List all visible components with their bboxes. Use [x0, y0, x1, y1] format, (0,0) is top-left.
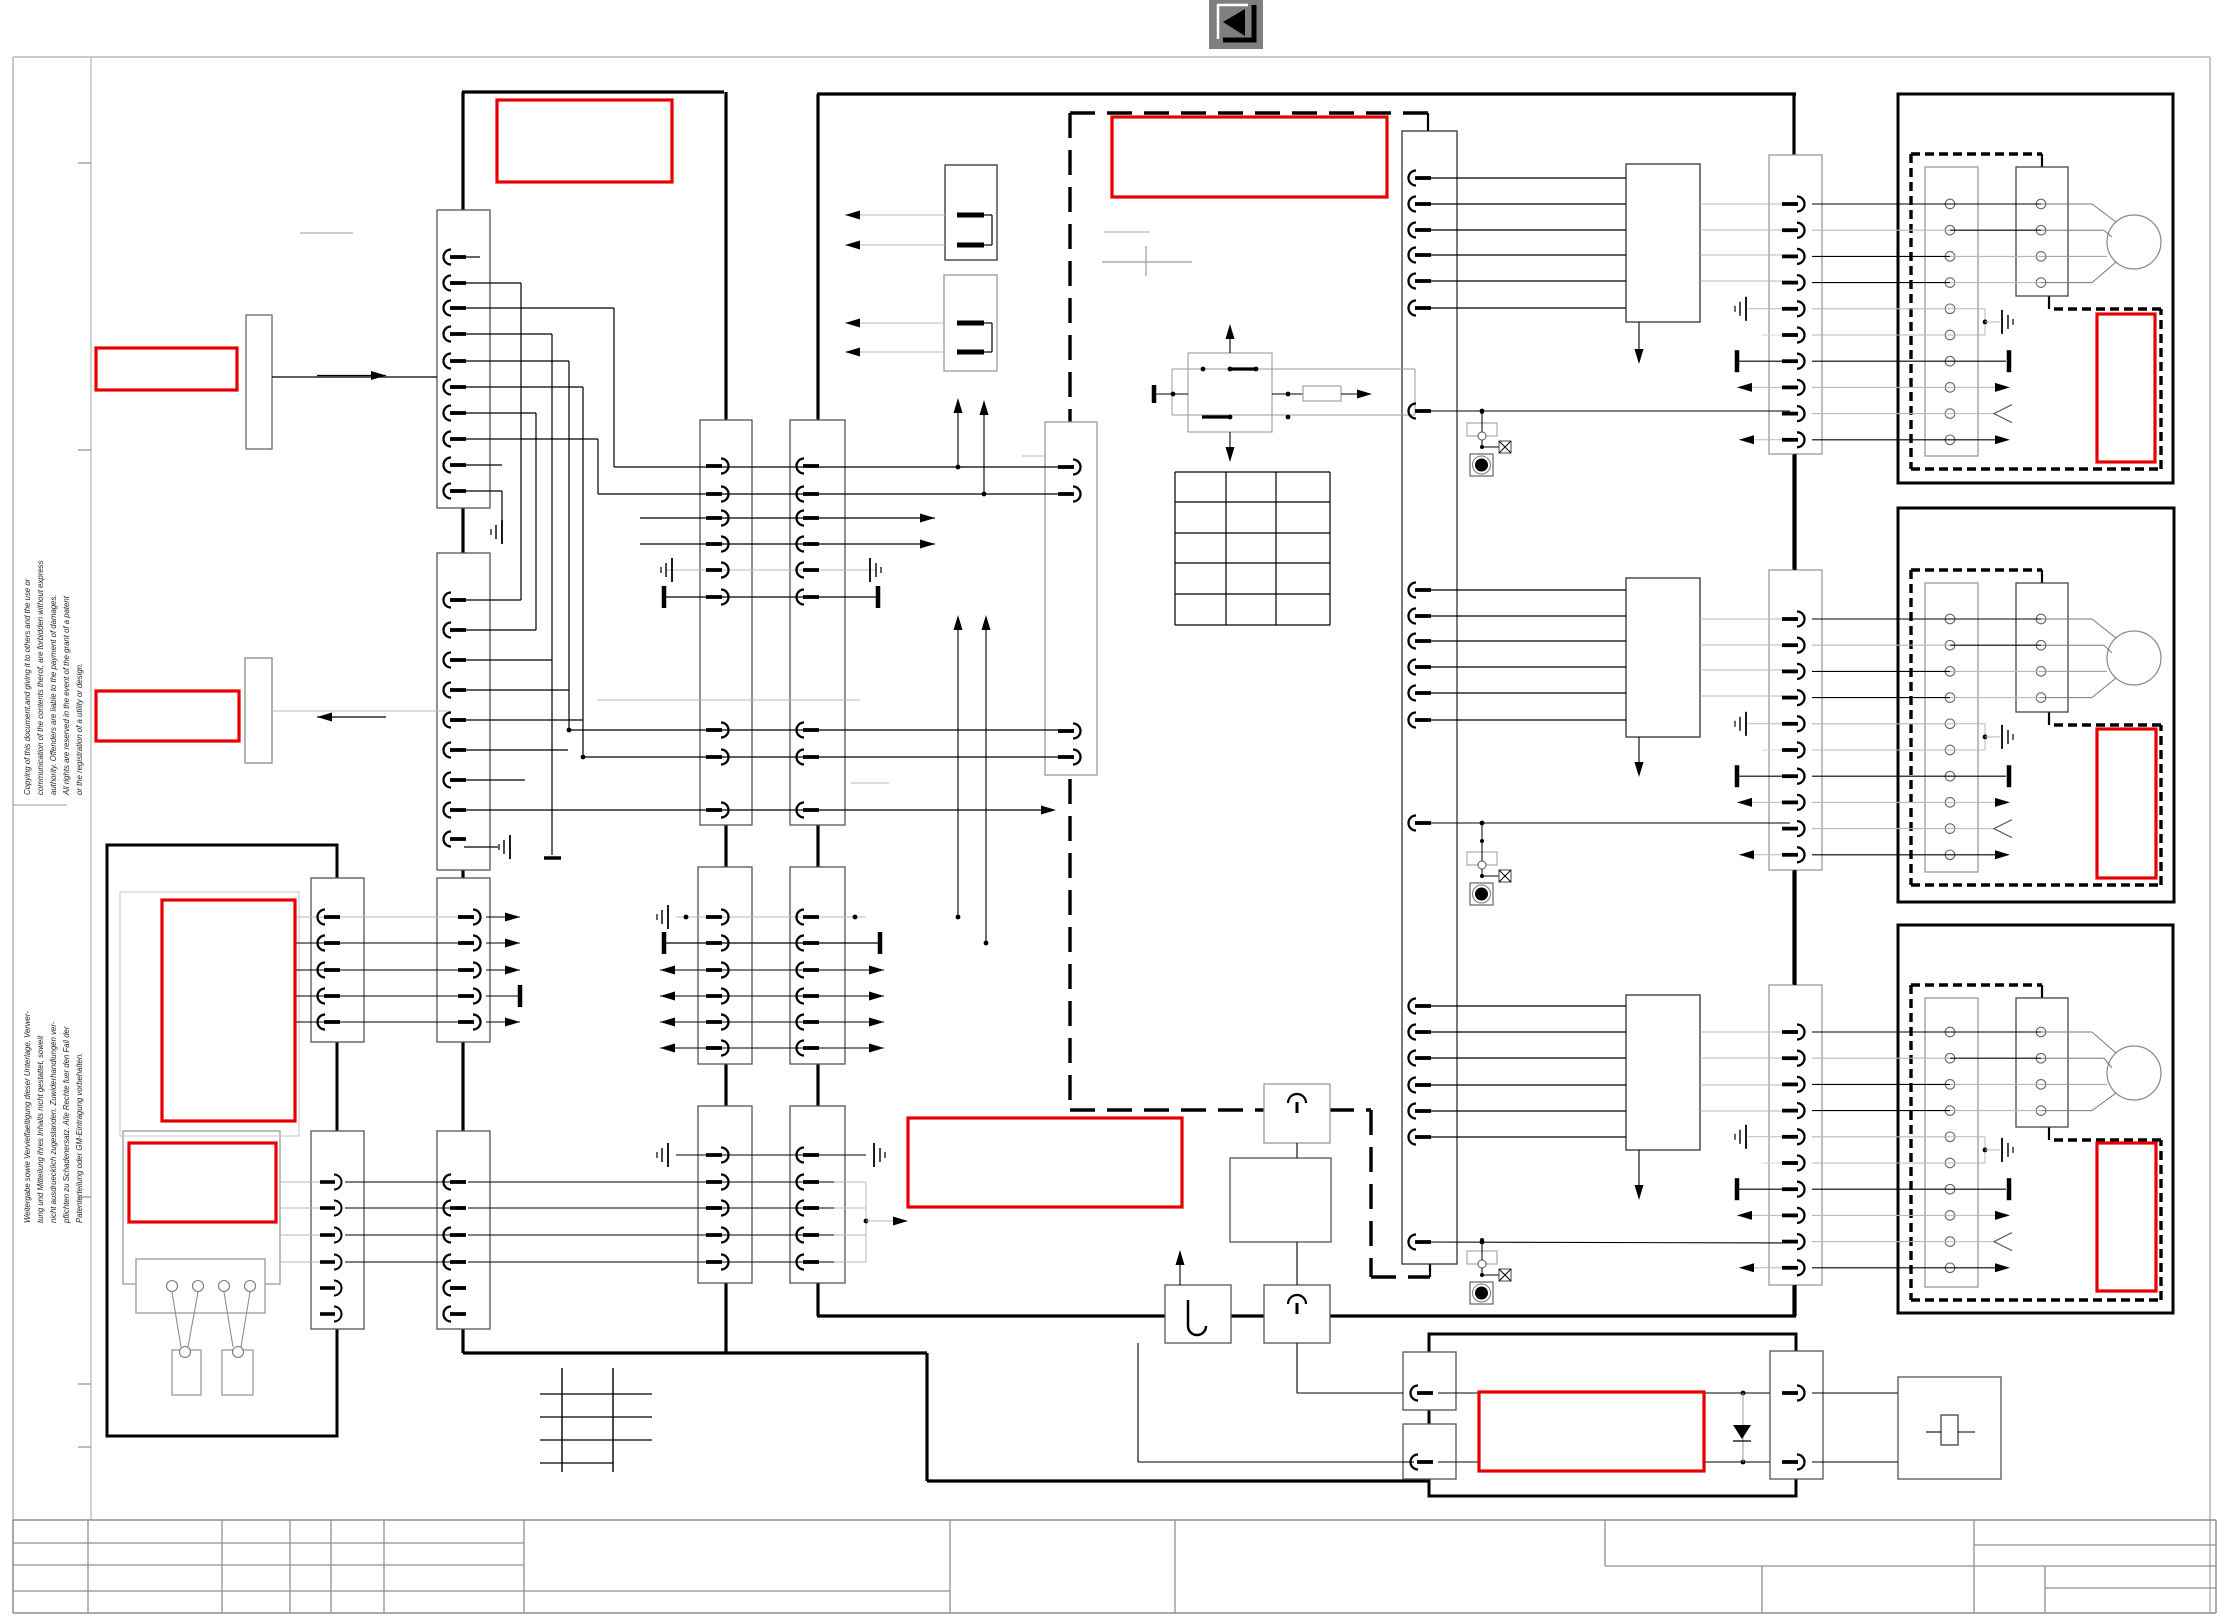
svg-text:nicht ausdruecklich zugestande: nicht ausdruecklich zugestanden. Zuwider… — [49, 1021, 58, 1223]
svg-text:communication of the contents: communication of the contents therof, ar… — [36, 560, 45, 795]
svg-text:tung und Mitteilung ihres Inha: tung und Mitteilung ihres Inhalts nicht … — [36, 1035, 45, 1223]
svg-text:or the registration of a utili: or the registration of a utility or desi… — [75, 663, 84, 795]
svg-text:pflichten zu Schadenersatz. Al: pflichten zu Schadenersatz. Alle Rechte … — [62, 1026, 71, 1224]
svg-text:Copying of this document,and g: Copying of this document,and giving it t… — [23, 578, 32, 795]
svg-text:Weitergabe sowie Vervielfaelti: Weitergabe sowie Vervielfaeltigung diese… — [23, 1011, 32, 1223]
svg-text:authority. Offenders are liabl: authority. Offenders are liable to the p… — [49, 594, 58, 795]
svg-text:Patenterteilung oder GM-Eintra: Patenterteilung oder GM-Eintragung vorbe… — [75, 1053, 84, 1223]
svg-text:All rights are reserved in the: All rights are reserved in the event of … — [62, 595, 71, 796]
